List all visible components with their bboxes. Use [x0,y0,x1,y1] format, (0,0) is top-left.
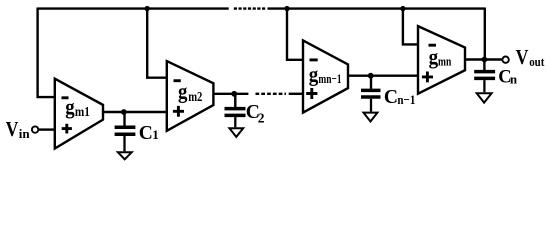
svg-text:n: n [510,71,518,86]
op-amp U1 gm1 minus sign [62,96,69,99]
wire node n-1 cap Cn-1 stub [370,76,372,89]
wire gm2 output to node 2 [213,93,248,95]
capacitor Cn plates [474,72,495,79]
svg-text:V: V [516,45,529,69]
wire gmn-1 output to node n-1 and gmn plus input [348,74,418,76]
op-amp U4 gmn plus sign [422,72,433,83]
wire tap to gmn minus input [403,9,418,45]
capacitor Cn-1 plates [361,90,381,97]
wire tap to gmn-1 minus input [287,9,303,60]
capacitor Cn-1 bottom stub [370,99,372,112]
op-amp U4 gmn minus sign [429,44,437,47]
svg-text:mn: mn [438,54,452,69]
input terminal circle Vin [32,126,38,132]
wire node2 dashed continuation [256,93,287,95]
wire tap to gm2 minus input [147,9,167,78]
wire feedback left drop to gm1 minus input [38,8,55,98]
capacitor Cn bottom stub [483,80,485,92]
output terminal circle Vout [502,57,508,63]
svg-text:m2: m2 [188,89,202,104]
svg-text:C: C [384,87,398,108]
svg-text:m1: m1 [75,104,90,119]
wire top feedback solid left segment [38,7,229,9]
wire feedback right drop to output node [484,8,486,60]
capacitor C1 bottom stub [123,136,125,151]
svg-text:mn−1: mn−1 [318,71,341,86]
wire top feedback dashed segment [234,7,265,9]
node 1 junction dot gm1 output [121,109,127,115]
svg-text:V: V [6,117,19,141]
wire node2 cap C2 stub [234,94,236,107]
node out junction dot gmn output [482,57,488,63]
wire output node cap Cn stub [483,60,485,71]
op-amp U1 gm1 triangle [55,79,103,149]
op-amp U2 gm2 triangle [167,61,214,131]
wire gmn output to output node [465,58,502,60]
node B junction dot top wire gmn-1 tap [284,6,289,11]
svg-text:1: 1 [152,127,159,142]
capacitor C2 bottom stub [234,117,236,127]
op-amp U3 gmn-1 triangle [303,40,348,112]
wire top feedback solid right segment [268,7,485,9]
op-amp U2 gm2 minus sign [174,79,181,82]
ground symbol for Cn-1 [364,113,378,122]
wire node1 cap C1 stub [123,112,125,126]
node A junction dot top wire gm2 tap [145,6,150,11]
op-amp U1 gm1 plus sign [62,124,72,134]
op-amp U3 gmn-1 minus sign [310,58,318,61]
svg-text:g: g [429,44,439,69]
svg-text:g: g [65,94,74,119]
svg-text:n−1: n−1 [397,92,415,107]
svg-text:2: 2 [258,111,265,126]
wire Vin to gm1 plus input [39,128,55,130]
wire continuation to gmn-1 plus input [289,93,303,95]
ground symbol for Cn [477,93,492,102]
capacitor C2 plates [225,109,246,116]
svg-text:g: g [309,61,319,86]
node n-1 junction dot gmn-1 output [368,73,374,79]
op-amp U4 gmn triangle [418,26,465,94]
wire gm1 output to node 1 and gm2 plus input [103,111,167,113]
op-amp U3 gmn-1 plus sign [306,88,317,99]
svg-text:in: in [19,126,31,141]
svg-text:C: C [139,123,153,144]
capacitor C1 plates [115,127,136,134]
op-amp U2 gm2 plus sign [173,106,184,117]
node C junction dot top wire gmn tap [400,6,405,11]
ground symbol for C1 [118,152,132,159]
svg-text:g: g [178,79,187,104]
ground symbol for C2 [229,128,243,137]
svg-text:out: out [529,54,545,69]
node 2 junction dot gm2 output [231,91,237,97]
